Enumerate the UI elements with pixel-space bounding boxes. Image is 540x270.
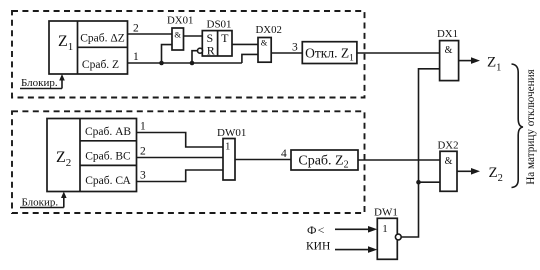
node junction trunk -> DX2: [416, 180, 421, 185]
svg-text:DW01: DW01: [217, 127, 246, 139]
wire line1 -> DX01 lower input: [162, 45, 173, 63]
svg-text:Z2: Z2: [489, 165, 503, 184]
svg-text:Сраб. Z2: Сраб. Z2: [298, 154, 348, 171]
OR gate DW01: [217, 127, 246, 180]
svg-text:Сраб. СА: Сраб. СА: [85, 175, 131, 187]
svg-text:Сраб. Z: Сраб. Z: [82, 59, 119, 71]
svg-text:3: 3: [140, 170, 146, 182]
wire Ф< -> DW1 with arrow: [335, 226, 377, 233]
AND gate DX01: [167, 15, 193, 51]
svg-text:&: &: [174, 30, 181, 40]
label Блокир. (Z1): [20, 77, 62, 89]
svg-text:Z1: Z1: [58, 33, 73, 53]
svg-text:КИН: КИН: [306, 241, 330, 253]
svg-text:&: &: [445, 156, 453, 167]
wire Z2 output 2 -> DW01: [137, 146, 224, 158]
svg-text:Ф<: Ф<: [307, 223, 326, 237]
svg-text:На матрицу отключения: На матрицу отключения: [525, 69, 537, 185]
dashed zone box Z2: [12, 111, 365, 213]
wire line1 -> DS01 R input: [192, 51, 198, 63]
wire Блокир.->Z2 with arrow: [61, 192, 67, 208]
svg-text:DW1: DW1: [374, 207, 398, 219]
node junction on line 1 to DX01: [159, 61, 164, 66]
svg-text:1: 1: [382, 223, 388, 235]
AND gate DX2: [438, 140, 459, 192]
svg-text:DX02: DX02: [256, 24, 282, 36]
AND gate DX1: [437, 28, 459, 81]
svg-text:T: T: [221, 31, 229, 45]
svg-text:DX2: DX2: [438, 140, 459, 152]
svg-text:4: 4: [281, 148, 287, 160]
svg-text:1: 1: [140, 121, 146, 133]
wire КИН -> DW1 with arrow: [335, 246, 377, 253]
svg-text:&: &: [261, 38, 268, 48]
wire DX01 -> DS01 S: [184, 35, 203, 37]
label Блокир. (Z2): [20, 197, 64, 209]
wire DS01 -> DX02 upper input: [232, 43, 258, 45]
trigger DS01: [198, 19, 233, 58]
svg-text:DX01: DX01: [167, 15, 193, 27]
OR gate DW1: [374, 207, 401, 260]
dashed zone box Z1: [12, 11, 365, 98]
svg-text:&: &: [445, 45, 453, 56]
wire Z1 output 1: [128, 51, 242, 63]
box Откл. Z1: [302, 42, 357, 64]
svg-text:Блокир.: Блокир.: [21, 77, 58, 89]
svg-text:2: 2: [140, 146, 146, 158]
AND gate DX02: [256, 24, 282, 62]
wire DW01 -> Сраб. Z2, node 4: [235, 148, 292, 160]
svg-text:Сраб. АВ: Сраб. АВ: [85, 126, 131, 138]
svg-text:DS01: DS01: [207, 19, 232, 31]
svg-text:Откл. Z1: Откл. Z1: [305, 46, 354, 64]
wire Сраб. Z2 -> DX2: [358, 159, 440, 161]
box Сраб. Z2: [291, 150, 358, 171]
wire Z2 output 3 -> DW01: [137, 170, 224, 182]
wire DX2 output -> Z2 arrow: [457, 165, 503, 184]
wire DW1 -> DX1 lower input (vertical trunk): [401, 69, 439, 237]
node junction on line 1 to DS01 R: [190, 61, 195, 66]
wire DX1 output -> Z1 arrow: [459, 55, 502, 74]
brace to trip matrix: [512, 64, 524, 188]
svg-text:R: R: [207, 44, 215, 58]
wire Блокир.->Z1 with arrow: [59, 74, 65, 89]
wire Z1 output 2: [128, 23, 173, 35]
wire line1 -> DX02 lower input: [242, 54, 258, 63]
svg-text:DX1: DX1: [437, 28, 458, 40]
svg-text:Z1: Z1: [487, 55, 501, 74]
block Z2: [47, 119, 137, 192]
wire Z2 output 1 -> DW01: [137, 121, 224, 148]
svg-text:1: 1: [225, 142, 230, 153]
svg-text:1: 1: [133, 51, 139, 63]
svg-text:Сраб. ВС: Сраб. ВС: [85, 150, 131, 162]
wire DX02 -> Откл. Z1, node 3: [271, 42, 302, 54]
svg-text:Z2: Z2: [56, 149, 71, 169]
svg-text:Сраб. ΔZ: Сраб. ΔZ: [80, 33, 125, 45]
wire Откл. Z1 -> DX1: [357, 52, 440, 54]
wire trunk -> DX2 lower input: [419, 181, 441, 183]
svg-text:3: 3: [292, 42, 298, 54]
block Z1: [49, 21, 128, 74]
svg-text:2: 2: [133, 23, 139, 35]
